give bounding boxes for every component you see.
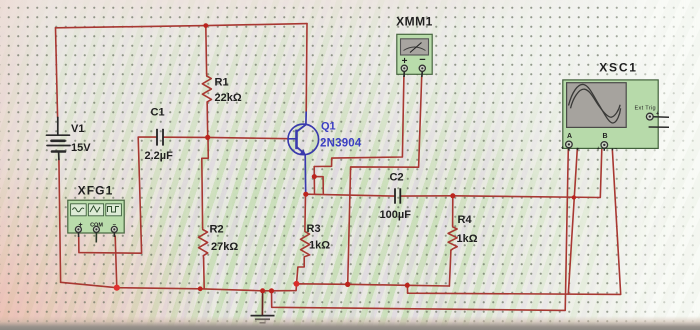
svg-text:V1: V1: [71, 123, 84, 135]
wire V1 top: [56, 28, 58, 118]
svg-text:XFG1: XFG1: [78, 184, 114, 198]
wire emitter node to C2: [306, 194, 395, 196]
svg-text:+: +: [597, 146, 600, 152]
wire emitter node loop vertical: [313, 167, 315, 195]
oscilloscope XSC1: [561, 80, 669, 152]
battery V1: [47, 117, 71, 159]
wire C1 to Q1 base: [164, 137, 289, 139]
resistor R2 zigzag: [199, 228, 208, 259]
capacitor C2: [395, 188, 400, 203]
svg-text:+: +: [656, 111, 659, 117]
svg-text:15V: 15V: [71, 142, 91, 154]
wire R3 bottom jog: [297, 258, 305, 283]
wire emitter to R3: [304, 194, 307, 230]
resistor R3 zigzag: [301, 230, 310, 259]
svg-text:XMM1: XMM1: [396, 15, 433, 29]
wire top rail: [56, 24, 308, 28]
wire XFG1 minus to ground rail: [115, 236, 117, 288]
wire R2 bottom lead: [203, 258, 206, 289]
wire R4 bottom lead: [449, 250, 451, 286]
svg-text:1kΩ: 1kΩ: [309, 240, 330, 252]
svg-text:−: −: [615, 146, 618, 152]
wire R1 top lead: [205, 26, 208, 74]
svg-text:R4: R4: [458, 214, 473, 226]
svg-text:2.2µF: 2.2µF: [145, 150, 174, 162]
resistor R1 zigzag: [202, 73, 211, 104]
capacitor C1: [157, 129, 163, 146]
svg-text:−: −: [577, 146, 580, 152]
svg-text:R3: R3: [307, 223, 321, 235]
svg-text:C2: C2: [390, 172, 404, 184]
svg-text:R2: R2: [210, 224, 224, 236]
wire XFG1 plus to C1: [79, 137, 156, 253]
svg-text:−: −: [419, 54, 425, 66]
svg-text:1kΩ: 1kΩ: [457, 233, 478, 245]
wire XMM1 minus route: [348, 77, 422, 285]
svg-text:XSC1: XSC1: [599, 61, 638, 75]
svg-text:Ext Trig: Ext Trig: [635, 106, 656, 112]
wire A- to ground line: [568, 149, 577, 294]
wire B- ground line: [407, 149, 620, 295]
wire emitter node loop horizontal: [314, 177, 323, 195]
svg-text:Q1: Q1: [321, 121, 336, 133]
wire R2 top jog: [202, 137, 209, 227]
wire R4 top lead: [452, 196, 454, 226]
wire R1 bottom lead: [206, 105, 209, 138]
multimeter XMM1: [397, 34, 432, 77]
function generator XFG1: [68, 200, 124, 242]
svg-text:27kΩ: 27kΩ: [211, 241, 238, 253]
wire C2 right to output: [401, 149, 602, 198]
svg-text:22kΩ: 22kΩ: [215, 92, 242, 104]
svg-text:C1: C1: [151, 107, 165, 119]
svg-text:+: +: [561, 146, 564, 152]
ground: [251, 291, 275, 323]
svg-text:A: A: [567, 133, 572, 140]
wire ground branch to scope line: [272, 149, 569, 311]
resistor R4 zigzag: [448, 225, 457, 250]
wire bottom rail left: [61, 282, 263, 291]
wire V1 bottom: [59, 159, 61, 282]
wire bottom rail middle: [263, 284, 450, 291]
svg-text:2N3904: 2N3904: [320, 138, 362, 150]
wire collector from rail: [305, 24, 308, 112]
svg-text:100µF: 100µF: [380, 209, 412, 221]
svg-text:R1: R1: [215, 77, 229, 89]
wire XMM1 plus route: [314, 77, 404, 167]
transistor Q1: [288, 112, 319, 195]
svg-text:B: B: [603, 133, 608, 140]
